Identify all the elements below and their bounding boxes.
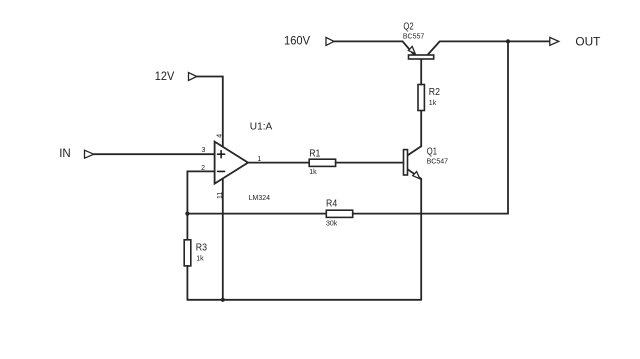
- svg-text:U1:A: U1:A: [250, 121, 272, 133]
- svg-text:4: 4: [216, 134, 223, 138]
- svg-text:Q1: Q1: [427, 146, 438, 157]
- svg-text:2: 2: [201, 165, 205, 172]
- wire R2 to Q2 base: [420, 59, 422, 85]
- wire Q2 collector to OUT: [440, 40, 550, 42]
- wire Q1 emitter to bottom rail: [420, 179, 422, 300]
- svg-text:R2: R2: [429, 87, 441, 98]
- svg-text:160V: 160V: [284, 34, 310, 48]
- svg-text:LM324: LM324: [249, 195, 271, 202]
- svg-text:1k: 1k: [309, 169, 317, 176]
- svg-text:11: 11: [217, 192, 224, 199]
- wire IN to op-amp pin 3: [94, 153, 215, 155]
- junction dot pin11/bottom rail: [221, 298, 225, 302]
- wire R1 to Q1 base: [336, 162, 404, 164]
- wire op-amp output to R1: [248, 162, 309, 164]
- svg-text:R4: R4: [326, 199, 338, 210]
- svg-text:3: 3: [202, 147, 206, 154]
- port 12V arrow: [189, 73, 197, 81]
- wire bottom rail: [187, 299, 421, 301]
- wire 12V to op-amp pin 4: [197, 77, 223, 150]
- wire 160V to Q2 emitter: [334, 40, 403, 42]
- svg-text:Q2: Q2: [403, 22, 414, 33]
- wire node A to R4: [187, 213, 326, 215]
- svg-text:30k: 30k: [326, 221, 338, 228]
- resistor R3: [184, 240, 191, 266]
- svg-text:IN: IN: [59, 146, 70, 160]
- wire R4 to OUT node: [353, 41, 508, 213]
- wire pin 11 to bottom rail: [222, 176, 224, 300]
- wire R3 to bottom rail: [186, 266, 188, 300]
- port OUT arrow: [550, 37, 559, 45]
- svg-text:BC557: BC557: [403, 34, 425, 41]
- svg-text:1k: 1k: [196, 255, 204, 262]
- resistor R4: [326, 210, 352, 217]
- transistor Q1: [408, 146, 422, 155]
- svg-text:12V: 12V: [155, 69, 175, 83]
- svg-text:R1: R1: [309, 148, 321, 159]
- wire op-amp pin 2 to node A: [187, 171, 214, 213]
- op-amp U1:A: [215, 142, 248, 184]
- wire Q1 collector to R2: [420, 111, 422, 147]
- transistor Q2: [403, 41, 415, 55]
- svg-text:R3: R3: [196, 243, 208, 254]
- svg-text:OUT: OUT: [575, 35, 601, 49]
- port IN arrow: [85, 150, 94, 158]
- svg-text:1k: 1k: [429, 100, 437, 107]
- resistor R2: [418, 85, 424, 111]
- node A junction dot: [185, 212, 189, 216]
- junction dot OUT node: [506, 39, 510, 43]
- port 160V arrow: [326, 37, 334, 45]
- wire node A to R3: [186, 214, 188, 240]
- resistor R1: [309, 159, 335, 166]
- svg-text:BC547: BC547: [427, 159, 449, 166]
